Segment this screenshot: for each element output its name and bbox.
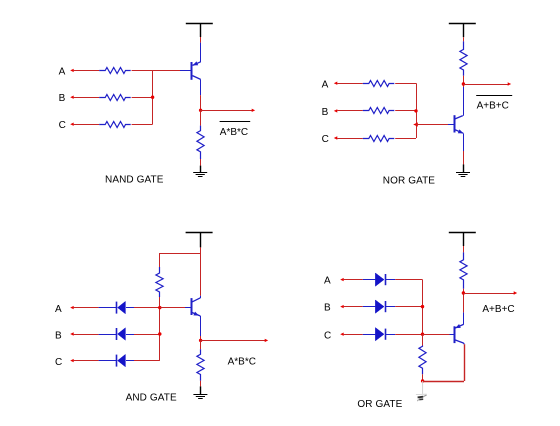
junction dot bottom node (OR): [421, 379, 424, 382]
wire Vcc stem (NOR): [463, 37, 465, 41]
wire Vcc to corner (AND): [160, 247, 201, 253]
wire R8 to output node (NOR): [463, 76, 465, 84]
node input A (NAND): [59, 66, 74, 77]
ground (NAND): [193, 166, 207, 177]
resistor R5 (NOR input A): [363, 81, 395, 87]
wire input bus (NAND): [152, 70, 154, 124]
label AND GATE: [126, 393, 177, 404]
wire bus to base Q4 (OR): [423, 334, 450, 336]
label output A*B*C (AND): [228, 357, 256, 368]
wire input bus (OR): [422, 280, 424, 335]
junction dot B bus (NAND): [151, 96, 154, 99]
svg-text:A+B+C: A+B+C: [482, 304, 514, 315]
wire resistor to bus (NAND B): [132, 97, 153, 99]
resistor R9 pull-up (AND): [156, 267, 163, 297]
diode D1 (AND input A): [99, 301, 134, 313]
wire Q3 collector join (AND): [200, 296, 202, 298]
wire diode to bus (OR C): [395, 334, 422, 336]
wire input B to diode (OR): [344, 306, 363, 308]
wire resistor to bus (NAND A): [132, 70, 153, 72]
wire diode to bus (AND C): [134, 360, 160, 362]
node input B (NOR): [322, 107, 338, 118]
svg-text:C: C: [59, 120, 66, 131]
svg-text:C: C: [322, 134, 329, 145]
ground (NOR): [456, 164, 470, 176]
resistor R6 (NOR input B): [363, 108, 395, 114]
junction dot B bus (NOR): [414, 109, 417, 112]
wire Vcc stem (OR): [463, 246, 465, 252]
resistor R8 collector (NOR): [460, 41, 467, 75]
label OR GATE: [357, 399, 402, 410]
wire Q4 collector (OR): [463, 293, 465, 325]
svg-text:B: B: [322, 107, 329, 118]
wire R10 to ground (AND): [200, 381, 202, 387]
wire input A to resistor (NOR): [337, 83, 363, 85]
wire output (AND): [201, 339, 269, 342]
wire output node to R4 (NAND): [200, 110, 202, 125]
svg-text:A: A: [55, 304, 62, 315]
junction dot B bus (OR): [421, 305, 424, 308]
node input C (AND): [55, 357, 74, 368]
node input A (OR): [324, 276, 344, 287]
label output A*B*C with overline (NAND): [220, 122, 251, 139]
svg-text:NAND GATE: NAND GATE: [105, 174, 164, 185]
label output A+B+C (OR): [482, 304, 514, 315]
node input C (NOR): [322, 134, 338, 145]
junction dot A bus (AND): [158, 306, 161, 309]
junction dot output node (NAND): [199, 109, 202, 112]
wire bus to R11 (OR): [422, 334, 424, 345]
resistor R10 pull-down (AND): [197, 349, 204, 380]
transistor Q3 NPN (AND): [185, 298, 200, 316]
resistor R1 (NAND input A): [99, 68, 131, 74]
wire input C to resistor (NAND): [74, 124, 100, 126]
resistor R4 pull-down (NAND): [197, 126, 204, 159]
power rail Vcc (NAND): [186, 23, 213, 37]
power rail Vcc (OR): [449, 233, 476, 247]
wire resistor to bus (NOR C): [395, 138, 416, 140]
diode D4 (OR input A): [363, 273, 395, 286]
wire Q2 collector (NOR): [463, 84, 465, 116]
wire R11 to bottom node (OR): [422, 374, 424, 381]
wire output (NOR): [463, 82, 511, 85]
ground faded (OR): [416, 381, 427, 401]
junction dot output node (AND): [199, 339, 202, 342]
wire input C to diode (OR): [344, 334, 363, 336]
wire Vcc stem to Q1 (NAND): [200, 37, 202, 43]
wire Q4 emitter stub (OR): [463, 343, 465, 344]
wire input B to resistor (NAND): [74, 97, 100, 99]
label NAND GATE: [105, 174, 164, 185]
wire input A to resistor (NAND): [74, 70, 100, 72]
junction dot base tap (NOR): [413, 122, 418, 126]
wire R9 to node A (AND): [159, 297, 161, 308]
node input B (NAND): [59, 93, 74, 104]
wire R12 to output node (OR): [463, 289, 465, 293]
wire input C to resistor (NOR): [337, 138, 363, 140]
wire bus to base Q2 (NOR): [416, 124, 448, 126]
wire resistor to bus (NOR A): [395, 83, 416, 85]
svg-text:A: A: [59, 66, 66, 77]
resistor R2 (NAND input B): [99, 95, 131, 101]
svg-text:A*B*C: A*B*C: [228, 357, 256, 368]
wire bus to base Q1 (NAND): [153, 70, 180, 72]
node input B (AND): [55, 331, 74, 342]
wire diode to bus (OR A): [395, 279, 422, 281]
wire diode to bus (AND B): [134, 334, 160, 336]
node input C (OR): [324, 330, 344, 341]
wire bottom return (OR): [423, 344, 465, 381]
diode D5 (OR input B): [363, 300, 395, 313]
transistor Q1 PNP (NAND): [180, 43, 201, 96]
svg-text:AND GATE: AND GATE: [126, 393, 177, 404]
junction dot output node (OR): [462, 291, 465, 294]
diode D3 (AND input C): [99, 354, 134, 366]
svg-text:C: C: [55, 357, 62, 368]
wire input A to diode (AND): [74, 307, 99, 309]
svg-text:B: B: [59, 93, 66, 104]
wire Q3 emitter to output node (AND): [200, 316, 202, 340]
svg-text:A: A: [324, 276, 331, 287]
wire output (NAND): [201, 109, 256, 112]
wire Q2 emitter to ground (NOR): [463, 133, 465, 164]
transistor Q2 NPN (NOR): [448, 115, 463, 133]
wire bus to base Q3 (AND): [160, 307, 185, 309]
diode D6 (OR input C): [363, 328, 395, 341]
resistor R7 (NOR input C): [363, 136, 395, 142]
resistor R3 (NAND input C): [99, 122, 131, 128]
power rail Vcc (AND): [186, 233, 213, 248]
wire R4 to ground (NAND): [200, 159, 202, 166]
power rail Vcc (NOR): [449, 23, 476, 37]
junction dot output node (NOR): [462, 82, 465, 85]
node input B (OR): [324, 303, 344, 314]
wire input bus (AND): [159, 308, 161, 361]
label output A+B+C with overline (NOR): [476, 96, 512, 112]
wire output node to R10 (AND): [200, 340, 202, 349]
wire input A to diode (OR): [344, 279, 363, 281]
label NOR GATE: [383, 176, 436, 187]
svg-text:A: A: [322, 79, 329, 90]
ground (AND): [193, 386, 207, 398]
wire Q1 emitter to output node (NAND): [200, 95, 202, 110]
resistor R11 pull-down (OR): [419, 346, 426, 375]
node input C (NAND): [59, 120, 74, 131]
node input A (NOR): [322, 79, 338, 90]
junction dot C bus (OR): [421, 333, 424, 336]
wire diode to bus (AND A): [134, 307, 160, 309]
transistor Q4 PNP (OR): [450, 324, 464, 343]
wire output (OR): [463, 291, 517, 294]
wire input B to resistor (NOR): [337, 110, 363, 112]
wire diode to bus (OR B): [395, 306, 422, 308]
svg-text:B: B: [324, 303, 331, 314]
junction dot B bus (AND): [158, 332, 161, 335]
wire input B to diode (AND): [74, 334, 99, 336]
diode D2 (AND input B): [99, 328, 134, 340]
resistor R12 collector (OR): [460, 252, 467, 288]
svg-text:A+B+C: A+B+C: [477, 100, 509, 111]
svg-text:NOR GATE: NOR GATE: [383, 176, 436, 187]
wire Vcc to Q3 collector (AND): [200, 253, 202, 296]
svg-text:OR GATE: OR GATE: [357, 399, 402, 410]
svg-text:B: B: [55, 331, 62, 342]
wire input C to diode (AND): [74, 360, 99, 362]
svg-text:C: C: [324, 330, 331, 341]
svg-text:A*B*C: A*B*C: [220, 127, 248, 138]
wire corner to R9 (AND): [159, 253, 161, 267]
wire resistor to bus (NAND C): [132, 124, 153, 126]
node input A (AND): [55, 304, 74, 315]
wire input bus (NOR): [416, 83, 418, 138]
wire resistor to bus (NOR B): [395, 110, 416, 112]
